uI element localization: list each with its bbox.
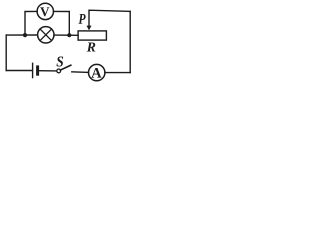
switch S lever: [60, 65, 70, 70]
wire slider top horizontal: [89, 10, 130, 26]
wire ammeter to bottom right corner: [105, 72, 130, 74]
label R: [87, 42, 96, 51]
ammeter A1 letter: [91, 68, 101, 78]
wire lamp branch left: [6, 34, 37, 36]
wire bottom left to battery: [6, 70, 32, 72]
wire V branch left stub: [25, 11, 37, 35]
switch S pivot: [57, 69, 61, 73]
lamp L1 body: [38, 27, 54, 43]
wire right vertical: [129, 11, 131, 72]
rheostat slider arrow: [87, 26, 92, 31]
wire left vertical: [5, 35, 7, 70]
lamp L1 cross: [40, 29, 52, 41]
battery cell long plate: [32, 63, 34, 77]
battery cell short plate: [36, 67, 39, 74]
node junction right dot: [67, 33, 71, 37]
resistor R body: [78, 31, 106, 40]
node junction left dot: [23, 33, 27, 37]
label S: [56, 56, 63, 66]
voltmeter V1 body: [37, 3, 53, 19]
wire junction to resistor: [69, 34, 78, 36]
wire lamp right: [54, 34, 67, 36]
wire switch to ammeter: [72, 71, 89, 74]
voltmeter V1 letter: [40, 7, 49, 16]
label P: [78, 14, 85, 24]
ammeter A1 body: [89, 64, 105, 80]
wire battery to switch: [39, 70, 57, 72]
wire V branch right: [54, 11, 70, 35]
